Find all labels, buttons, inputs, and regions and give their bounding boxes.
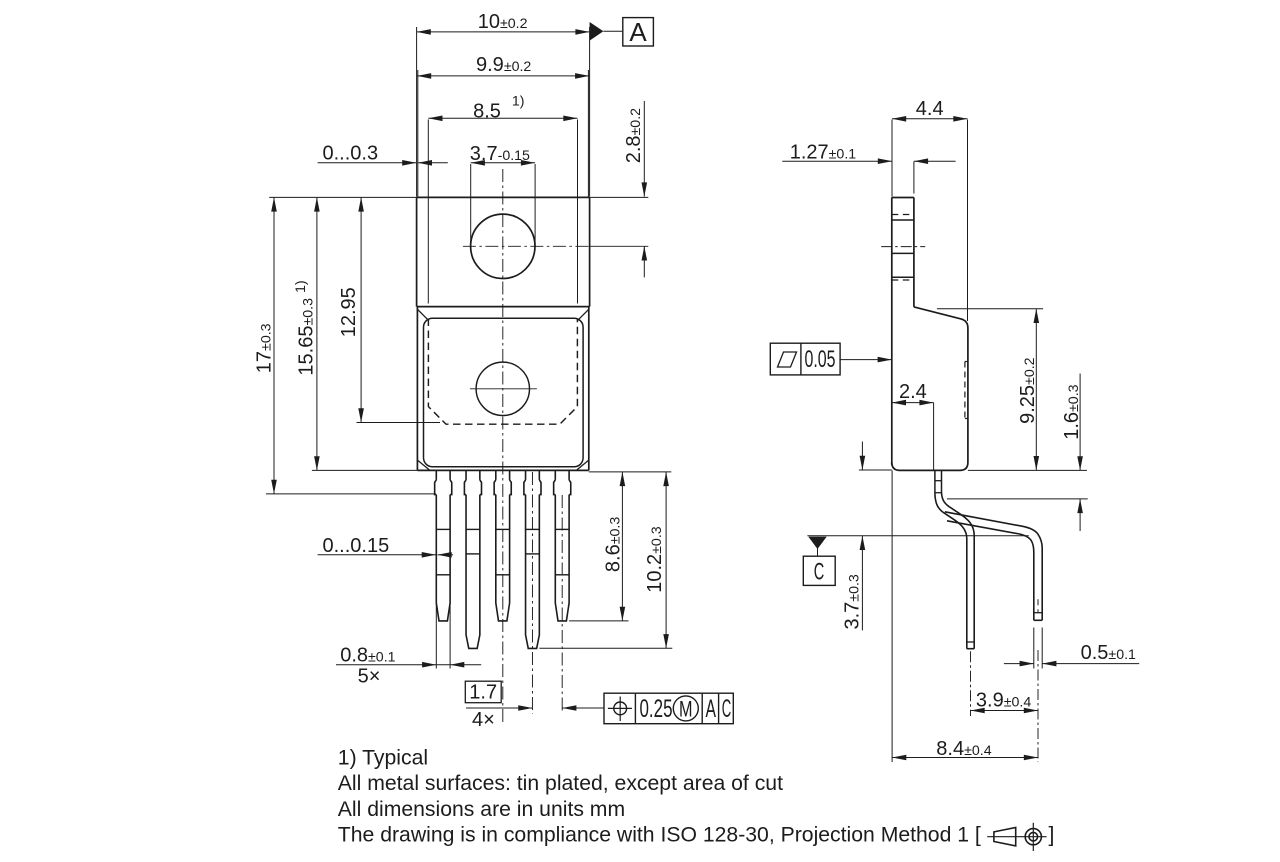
horizontal centerline through mounting hole <box>463 245 590 247</box>
dimension 12.95 tab top to heatsink hidden edge <box>338 197 440 422</box>
dimension 15.65±0.3 tab top to body bottom <box>293 197 418 470</box>
svg-text:4.4: 4.4 <box>916 98 944 120</box>
body corner chamfer bottom-right <box>577 460 589 470</box>
projection method 1 symbol: circles <box>1025 829 1041 845</box>
lead 3 outline <box>494 470 511 621</box>
svg-text:All metal surfaces: tin plated: All metal surfaces: tin plated, except a… <box>338 772 783 795</box>
dimension 9.9±0.2 body width <box>417 54 589 79</box>
side view body outline <box>892 307 968 471</box>
dimension 10±0.2 tab width <box>417 11 590 197</box>
notes text block <box>338 747 1055 847</box>
front view molded body outline <box>417 307 588 471</box>
back-row lead edge extensions <box>1033 628 1035 669</box>
extension line body bottom left <box>859 469 892 471</box>
dimension 8.6±0.3 body bottom to short lead tip <box>569 472 671 621</box>
dimension 3.7±0.3 body bottom to seating plane <box>842 442 866 631</box>
dimension 1.6±0.3 lead height at exit <box>947 374 1088 532</box>
lead 2 outline <box>464 470 481 648</box>
side view tab line bottom <box>892 276 914 278</box>
lead 2 plating cut line upper <box>466 528 480 530</box>
lead 1 plating cut line upper <box>436 528 450 530</box>
dimension 0.8±0.1 5x lead width <box>336 603 481 687</box>
lead 5 plating cut line lower <box>555 574 569 576</box>
svg-text:0...0.15: 0...0.15 <box>323 535 390 557</box>
svg-text:2.4: 2.4 <box>899 381 927 403</box>
feature control frame: position 0.25 M A C <box>604 693 733 724</box>
body corner chamfer top-right <box>578 309 589 320</box>
lower hole circle inside body <box>476 362 529 415</box>
lead 1 outline <box>435 470 452 621</box>
lead 3 plating cut line lower <box>496 574 510 576</box>
body corner chamfer bottom-left <box>418 460 430 470</box>
lead 2 plating cut line lower <box>466 553 480 555</box>
lower hole horizontal centerline <box>470 388 537 390</box>
dimension 2.4 lead offset from mounting face <box>892 381 934 469</box>
svg-text:The drawing is in compliance w: The drawing is in compliance with ISO 12… <box>338 824 981 847</box>
side view tab profile <box>892 197 914 465</box>
extension line tab top right <box>590 196 649 198</box>
svg-text:4×: 4× <box>472 709 495 731</box>
side view hole centerline <box>881 246 925 248</box>
side view tab hole hidden edge top (dashed) <box>892 214 914 216</box>
extension line body bottom right <box>968 469 1087 471</box>
svg-text:0.05: 0.05 <box>805 346 836 373</box>
dimension 9.25±0.2 body height <box>937 309 1043 470</box>
vertical centerline of package <box>502 169 504 723</box>
front view mounting hole 3.7 dia <box>471 214 535 278</box>
side view front-row bent lead <box>935 493 974 649</box>
dimension 8.4±0.4 mounting face to back row <box>892 470 1038 762</box>
dimension 3.9±0.4 row spacing <box>971 690 1039 714</box>
seating plane line datum C <box>807 535 1028 537</box>
svg-text:]: ] <box>1049 824 1055 847</box>
dimension 1.7 4x basic lead pitch <box>465 681 604 731</box>
dimension 8.5 heatsink width <box>428 93 577 303</box>
hidden heatsink outline inside body (dashed) <box>428 319 577 425</box>
svg-text:C: C <box>722 695 732 723</box>
svg-text:0...0.3: 0...0.3 <box>323 143 379 165</box>
dimension 3.7-0.15 hole diameter <box>470 143 535 246</box>
svg-text:1) Typical: 1) Typical <box>338 747 428 770</box>
projection method 1 symbol: vertical center line <box>1032 823 1034 851</box>
dimension 0.5±0.1 lead thickness <box>1004 642 1139 667</box>
body corner chamfer top-left <box>418 309 429 320</box>
dimension 2.8±0.2 hole center to tab top <box>623 101 647 277</box>
lead 1 plating cut line lower <box>436 574 450 576</box>
dimension 0...0.3 tab to body offset <box>318 143 448 166</box>
svg-text:12.95: 12.95 <box>338 287 360 337</box>
extension line tab top left <box>269 196 416 198</box>
svg-text:A: A <box>706 695 717 723</box>
lead 4 centerline extension <box>531 472 533 714</box>
side view tab line lower <box>892 252 914 254</box>
front-row lead centerline extension <box>970 651 972 716</box>
side view hidden stand-off notch (dashed) <box>965 362 968 419</box>
side view tab hole hidden edge bottom (dashed) <box>892 279 914 281</box>
flatness callout 0.05 <box>770 343 892 375</box>
lead 4 plating cut line lower <box>526 553 540 555</box>
front view molded face rounded rectangle <box>424 318 584 467</box>
datum C flag <box>803 537 835 586</box>
svg-text:All dimensions are in units mm: All dimensions are in units mm <box>338 798 625 821</box>
front view heatsink tab outline <box>417 197 590 306</box>
svg-text:C: C <box>814 559 825 586</box>
side view lead stub <box>935 470 942 494</box>
lead 4 outline <box>524 470 541 648</box>
side view tab line <box>892 219 914 221</box>
svg-text:0.25: 0.25 <box>640 695 673 723</box>
dimension 10.2±0.3 body bottom to long lead tip <box>539 472 672 648</box>
dimension 17±0.3 overall height <box>254 197 436 494</box>
dimension 4.4 tab face to body back <box>892 98 968 321</box>
back-row lead centerline extension <box>1037 650 1039 762</box>
lead 5 outline <box>554 470 571 621</box>
lead 5 centerline extension <box>561 495 563 714</box>
projection method 1 symbol: truncated cone <box>994 828 1016 846</box>
lead 5 plating cut line upper <box>555 528 569 530</box>
datum A flag <box>590 17 654 47</box>
svg-text:M: M <box>679 696 693 721</box>
lead 3 plating cut line upper <box>496 528 510 530</box>
svg-text:1.7: 1.7 <box>469 682 497 704</box>
dimension 0...0.15 lead etch step <box>318 535 453 558</box>
hole centerline extension right <box>590 245 649 247</box>
svg-text:A: A <box>629 17 647 47</box>
side view back-row bent lead <box>945 512 1042 621</box>
dimension 1.27±0.1 tab thickness <box>782 141 955 193</box>
projection method 1 symbol: center line <box>987 836 1046 838</box>
svg-text:5×: 5× <box>358 665 381 687</box>
lead 4 plating cut line upper <box>526 528 540 530</box>
